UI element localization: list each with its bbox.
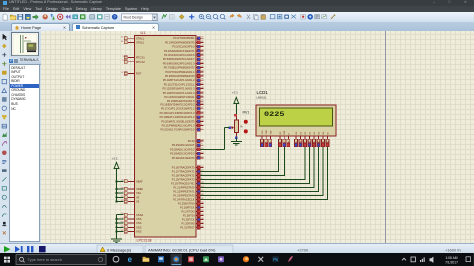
svg-text:P1.26/RTCK: P1.26/RTCK — [180, 206, 195, 210]
svg-text:P0.2/SCL0/CAP0.0: P0.2/SCL0/CAP0.0 — [172, 45, 195, 49]
svg-text:15: 15 — [201, 156, 203, 158]
svg-text:P1.25/EXTIN0: P1.25/EXTIN0 — [178, 202, 195, 206]
svg-text:+3.3: +3.3 — [112, 157, 118, 161]
svg-text:P0.23: P0.23 — [188, 139, 195, 143]
svg-text:1: 1 — [201, 124, 202, 126]
schematic canvas — [41, 31, 474, 243]
ground symbol (RV1) — [231, 142, 242, 145]
svg-text:V3: V3 — [136, 200, 140, 204]
svg-text:V3A: V3A — [136, 191, 141, 195]
svg-text:21: 21 — [201, 41, 203, 43]
svg-text:+3.3: +3.3 — [232, 91, 238, 95]
wire +3.3 to RV1 top — [235, 109, 237, 116]
svg-text:P0.22/AD1.7/CAP0.0/MAT0.0: P0.22/AD1.7/CAP0.0/MAT0.0 — [161, 128, 196, 132]
svg-text:30: 30 — [201, 62, 203, 64]
svg-text:28: 28 — [201, 202, 203, 204]
svg-text:P0.13/DTR1/MAT1.1/AD1.4: P0.13/DTR1/MAT1.1/AD1.4 — [163, 91, 195, 95]
svg-text:P1.22/PIPESTAT1: P1.22/PIPESTAT1 — [173, 190, 195, 194]
wire U1 P1.24 to LCD D7 — [201, 147, 328, 200]
svg-text:46: 46 — [201, 103, 203, 105]
terminals header — [9, 58, 41, 65]
svg-text:VSS: VSS — [136, 225, 142, 229]
svg-text:P1.17/TRACEPKT1: P1.17/TRACEPKT1 — [172, 170, 195, 174]
svg-text:26: 26 — [201, 49, 203, 51]
svg-text:P0.28/AD0.1/CAP0.2: P0.28/AD0.1/CAP0.2 — [170, 147, 195, 151]
svg-text:55: 55 — [201, 120, 203, 122]
LCD LCD1 LM016L — [256, 90, 336, 136]
svg-text:P0.30/AD0.3/EINT3: P0.30/AD0.3/EINT3 — [172, 156, 195, 160]
svg-text:VSS: VSS — [262, 130, 264, 135]
svg-text:3: 3 — [122, 56, 123, 58]
svg-text:29: 29 — [201, 58, 203, 60]
wire ground to VSS pins — [116, 215, 124, 239]
svg-text:P0.11/CTS1/CAP1.1/SCL1: P0.11/CTS1/CAP1.1/SCL1 — [164, 82, 195, 86]
svg-text:P1.20/TRACESYNC: P1.20/TRACESYNC — [171, 182, 195, 186]
svg-text:P1.23/PIPESTAT2: P1.23/PIPESTAT2 — [173, 194, 195, 198]
svg-text:P1.24/TRACECLK: P1.24/TRACECLK — [173, 198, 195, 202]
svg-text:0225: 0225 — [264, 111, 285, 118]
svg-text:0 Message(s): 0 Message(s) — [107, 247, 132, 252]
preview pane — [11, 32, 39, 57]
svg-text:P0.21/PWM5/AD1.6/CAP1.3: P0.21/PWM5/AD1.6/CAP1.3 — [162, 124, 195, 128]
sheet edge line — [385, 31, 386, 243]
power terminal +3.3 (RV1) — [232, 91, 239, 110]
svg-text:45: 45 — [201, 100, 203, 102]
svg-text:P0.19/MAT1.2/MOSI1/CAP1.2: P0.19/MAT1.2/MOSI1/CAP1.2 — [160, 115, 195, 119]
wire U1 P1.18 to LCD RW — [201, 147, 285, 176]
menu bar — [0, 6, 474, 13]
title bar — [0, 0, 474, 6]
svg-text:P1.28/TDI: P1.28/TDI — [183, 214, 195, 218]
svg-text:P0.14/DCD1/EINT1/SDA1: P0.14/DCD1/EINT1/SDA1 — [164, 95, 195, 99]
wire U1 P1.20 to LCD D3 — [201, 147, 310, 184]
svg-text:P0.9/RXD1/PWM6/EINT3: P0.9/RXD1/PWM6/EINT3 — [165, 74, 195, 78]
wire U1 P1.19 to LCD D2 — [201, 147, 306, 180]
svg-text:P1.19/TRACEPKT3: P1.19/TRACEPKT3 — [172, 178, 195, 182]
svg-text:61: 61 — [121, 41, 123, 43]
svg-text:16: 16 — [201, 166, 203, 168]
svg-text:56: 56 — [201, 214, 203, 216]
step — [15, 246, 20, 252]
toolbar — [0, 12, 474, 23]
windows taskbar — [0, 253, 474, 266]
svg-text:62: 62 — [121, 37, 123, 39]
wire RV1 wiper to U1 P0.28 (AD0.1) — [201, 128, 230, 150]
svg-text:33: 33 — [201, 70, 203, 72]
power terminal +3.3 (left) — [112, 157, 119, 182]
svg-text:Root Design: Root Design — [124, 16, 143, 20]
svg-text:P0.20/MAT1.3/SSEL1/EINT3: P0.20/MAT1.3/SSEL1/EINT3 — [161, 119, 195, 123]
svg-text:35: 35 — [201, 79, 203, 81]
svg-text:VSS: VSS — [136, 217, 142, 221]
svg-text:VEE: VEE — [270, 130, 272, 135]
object list — [9, 64, 40, 242]
svg-text:VSSA: VSSA — [136, 213, 143, 217]
svg-text:39: 39 — [201, 91, 203, 93]
svg-text:ANIMATING: 00:00:01 (CPU load: ANIMATING: 00:00:01 (CPU load 6%) — [148, 247, 216, 252]
svg-text:22: 22 — [201, 45, 203, 47]
svg-text:24: 24 — [201, 206, 203, 208]
svg-text:Type here to search: Type here to search — [28, 257, 62, 262]
svg-text:52: 52 — [201, 222, 203, 224]
svg-text:P1.29/TCK: P1.29/TCK — [182, 218, 195, 222]
wire U1 P1.17 to LCD RS — [201, 147, 279, 172]
svg-text:+2700: +2700 — [297, 247, 309, 252]
svg-text:RV1: RV1 — [243, 111, 250, 115]
svg-text:58: 58 — [201, 140, 203, 142]
svg-text:+1600 th: +1600 th — [445, 247, 461, 252]
svg-text:P0.6/MOSI0/CAP0.2/AD1.0: P0.6/MOSI0/CAP0.2/AD1.0 — [163, 61, 195, 65]
svg-text:LM016L: LM016L — [257, 96, 268, 100]
svg-text:P0.29/AD0.2/CAP0.3: P0.29/AD0.2/CAP0.3 — [170, 152, 195, 156]
svg-text:VSS: VSS — [136, 221, 142, 225]
wire RV1 bottom to ground — [235, 138, 237, 142]
svg-text:37: 37 — [201, 83, 203, 85]
svg-text:VDD: VDD — [266, 130, 268, 135]
left tool strip — [0, 31, 9, 243]
svg-text:P0.17/CAP1.2/SCK1/MAT1.2: P0.17/CAP1.2/SCK1/MAT1.2 — [161, 107, 195, 111]
svg-text:P0.3/SDA0/MAT0.0/EINT1: P0.3/SDA0/MAT0.0/EINT1 — [164, 49, 195, 53]
svg-text:XTAL1: XTAL1 — [136, 36, 145, 40]
svg-text:P0.0/TXD0/PWM1: P0.0/TXD0/PWM1 — [173, 36, 195, 40]
wire U1 P1.21 to LCD D4 — [201, 147, 315, 188]
svg-text:Ps: Ps — [273, 257, 278, 262]
svg-text:U1: U1 — [141, 31, 146, 35]
svg-text:34: 34 — [201, 75, 203, 77]
svg-text:41: 41 — [201, 96, 203, 98]
svg-text:e: e — [128, 255, 133, 264]
svg-text:P0.12/DSR1/MAT1.0/AD1.3: P0.12/DSR1/MAT1.0/AD1.3 — [163, 87, 196, 91]
start — [4, 257, 10, 263]
status bar — [0, 243, 474, 254]
pause — [27, 246, 29, 252]
svg-text:P1.18/TRACEPKT2: P1.18/TRACEPKT2 — [172, 174, 195, 178]
svg-text:VREF: VREF — [136, 187, 144, 191]
svg-text:XTAL2: XTAL2 — [136, 41, 145, 45]
ground symbol (chip VSS) — [111, 239, 122, 242]
microcontroller U1 LPC2138 — [121, 31, 203, 243]
left panel — [9, 31, 41, 243]
svg-text:54: 54 — [201, 116, 203, 118]
svg-text:7/1/2017: 7/1/2017 — [445, 260, 458, 264]
svg-text:P0.4/SCK0/CAP0.1/AD0.6: P0.4/SCK0/CAP0.1/AD0.6 — [164, 53, 195, 57]
svg-text:RTCX1: RTCX1 — [136, 56, 145, 60]
svg-text:31: 31 — [201, 66, 203, 68]
svg-text:1:08 AM: 1:08 AM — [445, 256, 457, 260]
svg-text:P0.5/MISO0/MAT0.1/AD0.7: P0.5/MISO0/MAT0.1/AD0.7 — [163, 57, 195, 61]
svg-text:VBAT: VBAT — [136, 180, 143, 184]
svg-text:LCD1: LCD1 — [257, 90, 269, 95]
svg-text:P0.16/EINT0/MAT0.2/CAP0.2: P0.16/EINT0/MAT0.2/CAP0.2 — [160, 103, 195, 107]
svg-text:P1.31/TRST: P1.31/TRST — [180, 226, 195, 230]
potentiometer RV1 — [228, 111, 249, 140]
svg-text:RTCX2: RTCX2 — [136, 60, 145, 64]
svg-text:9: 9 — [201, 144, 202, 146]
search box — [16, 255, 106, 265]
svg-text:38: 38 — [201, 87, 203, 89]
svg-text:53: 53 — [201, 111, 203, 113]
svg-text:P0.7/SSEL0/PWM2/EINT2: P0.7/SSEL0/PWM2/EINT2 — [164, 66, 195, 70]
svg-text:57: 57 — [121, 72, 123, 74]
svg-text:60: 60 — [201, 218, 203, 220]
play — [4, 246, 11, 252]
svg-text:19: 19 — [201, 37, 203, 39]
svg-text:RST: RST — [136, 72, 142, 76]
svg-text:52: 52 — [201, 210, 203, 212]
wire power to VBAT/VREF/V3 pins — [116, 181, 124, 203]
tab bar — [0, 22, 474, 32]
svg-text:P0.1/RXD0/PWM3/EINT0: P0.1/RXD0/PWM3/EINT0 — [165, 40, 195, 44]
stop — [39, 246, 46, 252]
svg-text:27: 27 — [201, 54, 203, 56]
wire U1 P1.23 to LCD D6 — [201, 147, 324, 196]
svg-text:P1.16/TRACEPKT0: P1.16/TRACEPKT0 — [172, 166, 195, 170]
svg-text:P1.21/PIPESTAT0: P1.21/PIPESTAT0 — [173, 186, 195, 190]
svg-text:P0.25/AD0.4/AOUT: P0.25/AD0.4/AOUT — [172, 143, 195, 147]
svg-text:RW: RW — [284, 131, 286, 134]
svg-text:V3: V3 — [136, 195, 140, 199]
svg-text:20: 20 — [201, 226, 203, 228]
svg-text:P1.27/TDO: P1.27/TDO — [182, 210, 195, 214]
svg-text:47: 47 — [201, 107, 203, 109]
svg-text:P0.10/RTS1/CAP1.0/AD1.2: P0.10/RTS1/CAP1.0/AD1.2 — [163, 78, 195, 82]
svg-text:14: 14 — [201, 152, 203, 154]
svg-text:2: 2 — [201, 128, 202, 130]
tray — [402, 258, 406, 260]
svg-text:P0.18/CAP1.3/MISO1/MAT1.3: P0.18/CAP1.3/MISO1/MAT1.3 — [160, 111, 195, 115]
svg-text:P1.30/TMS: P1.30/TMS — [182, 222, 195, 226]
svg-text:VSS: VSS — [136, 230, 142, 234]
wire U1 P1.22 to LCD D5 — [201, 147, 319, 192]
svg-text:5: 5 — [122, 60, 123, 62]
svg-text:P0.8/TXD1/PWM4/AD1.1: P0.8/TXD1/PWM4/AD1.1 — [165, 70, 195, 74]
svg-text:%: % — [240, 124, 243, 128]
